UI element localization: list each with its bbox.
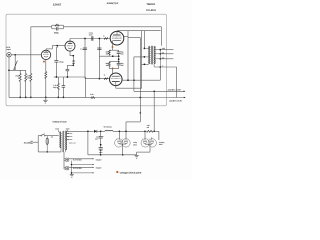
voltage check point V2 cathode [112,46,114,48]
node between filter caps [100,144,102,146]
OPT primary winding [149,46,150,64]
svg-text:1000p: 1000p [59,61,64,64]
node cathode bus [45,97,47,99]
capacitor C4 cathode bypass [62,77,64,85]
arrow another ch B+ [184,91,186,93]
wire screen to B line link [128,37,140,39]
svg-text:680p: 680p [54,32,59,35]
node primary tap 2 [144,63,146,65]
wire plate V3 [115,82,117,89]
wire plate V1b up [69,39,71,44]
capacitor C3 network 22k 2W [66,65,68,69]
wire heater winding lead [64,150,66,152]
wire HV to rectifier [65,130,93,132]
node secondary 16 ohm [159,49,161,51]
transformer T2 secondary winding [65,131,66,150]
wire AC feed [33,141,38,143]
node fuse bottom [47,151,48,152]
svg-text:voltage check point: voltage check point [120,172,142,175]
wire heater 2b [72,172,94,174]
node B+ tap junction [133,79,135,81]
diode D1 rectifier [94,130,97,133]
wire secondary ground return [159,67,161,80]
wire secondary spine [159,50,161,67]
choke CH1 5H 250mA [105,130,113,131]
svg-text:another ch B: another ch B [169,100,182,103]
wire B link long riser [139,38,141,98]
resistor R4 cathode V1a [45,72,47,79]
svg-text:100µ: 100µ [53,86,57,89]
OPT core [151,46,153,65]
resistor R3 grid leak [30,27,32,74]
schematic frame border [6,14,167,106]
fuse F1 [46,138,48,145]
voltage check point V1a cathode [43,61,45,63]
node heater common 1 [71,164,73,166]
node primary tap B+ [144,56,146,58]
tube V3 6V6GT lower [110,73,123,86]
AC plug symbol [30,140,32,142]
voltage check point V3 cathode [112,68,114,70]
wire cathode network right [72,56,74,66]
node can1 feed b [125,130,127,132]
resistor R5 plate load with capacitor C1 680p [51,25,53,29]
node lower grid junction [99,78,101,80]
wire speaker 8 [160,53,173,55]
heater winding terminals block 1 [65,158,67,160]
wire B+ rail [97,130,105,132]
arrow mark on riser [139,111,141,113]
wire plate V1b to grid upper [70,38,110,40]
node secondary 8 ohm [159,53,161,55]
resistor R12 dropper [146,130,153,132]
wire can2 ground [149,144,151,152]
svg-text:2W: 2W [72,62,75,65]
wire plate rail to OPT [64,26,162,28]
svg-text:input: input [6,48,11,51]
capacitor C2 coupling 1000p [56,46,58,48]
wire B+ down to supply [153,91,155,131]
svg-text:+: + [122,139,123,141]
wire to grid V1b [57,45,65,47]
capacitor C10 filter [100,131,102,136]
wire plate V1a [45,49,47,52]
node secondary 4 ohm [159,58,161,60]
wire cathode V1b [69,51,71,56]
node network join [72,64,74,66]
T2 core [62,131,64,152]
wire plate load left [31,26,52,28]
node pot bottom [8,69,10,71]
wire heater common down [71,161,73,175]
svg-text:another ch B+: another ch B+ [168,88,182,91]
wire aux grid return [98,39,100,79]
ground bus wire [9,96,86,98]
resistor R9 grid stopper lower [104,78,108,80]
T2 HV tap arrows [65,132,72,134]
wire plate V3 to OPT [116,87,142,89]
svg-text:TANGO: TANGO [146,3,155,6]
wire OPT box left edge lead [141,31,143,88]
resistor R8 grid stopper upper [104,38,108,40]
node secondary 0 [159,66,161,68]
wire transformer heater lead [63,152,65,169]
resistor R6 cathode 12AX7 [57,77,59,83]
wire lower drive down [84,39,86,79]
wire heater 2a [69,166,93,168]
ground symbol main [45,97,47,100]
capacitor can1 dual electrolytic [118,131,120,139]
svg-text:6.3V/3A: 6.3V/3A [73,159,82,162]
wire primary taps [58,130,60,132]
wire HV return down [87,131,89,155]
wire 0 down to B line [176,67,178,98]
capacitor C6 coupling lower [83,47,87,49]
wire primary bottom lead [60,148,62,152]
node drive split [84,38,86,40]
wire screen V2 [124,35,128,37]
node B line junction [139,97,141,99]
wire AC bottom [38,151,61,153]
node plate V1a grid V1b [56,45,58,47]
arrow another ch B [184,97,186,99]
wire rail after choke [113,130,145,132]
volume pot VR1 [14,55,16,71]
wire cathode V2 [112,40,114,50]
wire heater 1a [69,158,93,160]
ground symbol heater [70,173,74,175]
wire AC top [38,135,40,137]
svg-text:TANGO ST-220: TANGO ST-220 [52,120,67,123]
node cathode V1b [72,55,74,57]
wire cathode bus V1 [54,76,86,78]
svg-text:6V6G(T)×4: 6V6G(T)×4 [107,2,119,5]
svg-text:1/4W: 1/4W [27,77,31,80]
node dropper right [153,130,155,132]
wire to lower network [118,56,120,62]
heater winding terminals block 2 [65,166,67,168]
capacitor C11 filter [99,147,103,149]
resistor R1 input [19,70,21,73]
wire speaker 0 [160,66,176,68]
wire OPT primary lead 2 [142,63,149,65]
wire plate V2 [116,31,118,35]
node cathode join upper [112,55,114,57]
node filter cap 1 [100,130,102,132]
svg-text:12AX7: 12AX7 [53,2,62,6]
wire speaker 4 [160,58,173,60]
cathode network upper resistor R10 capacitor C8 [109,49,119,51]
node screen junction [127,79,129,81]
node can1 ground [122,154,124,156]
svg-text:FX-40-5: FX-40-5 [146,9,156,12]
capacitor C7 grid return [97,47,101,49]
svg-text:5H 250mA: 5H 250mA [104,125,113,128]
transformer T2 primary winding [60,132,61,148]
wire heater 1b [72,164,94,166]
triode V1b 12AX7 second half [65,41,75,51]
wire jack ground down [8,57,10,97]
wire lower grid [85,78,110,80]
capacitor C5 coupling upper [91,36,93,40]
node input junction [14,54,16,56]
node B+ supply junction [153,90,155,92]
wire screen riser [127,31,129,80]
wire pot bottom rail [9,69,26,71]
triode V1a 12AX7 first half [41,50,50,59]
wire plate line to OPT [117,30,161,32]
wire OPT primary lead 1 [143,31,145,49]
node dropper left [144,130,146,132]
svg-text:+: + [142,139,143,141]
wire cathode V3 [112,69,114,75]
wire B+ tap link [134,56,145,58]
svg-text:+: + [149,139,150,141]
node can1 feed a [119,130,121,132]
wire grid return bus [99,55,118,57]
svg-text:heater: heater [96,159,102,162]
tube V2 6V6GT upper [110,31,124,45]
svg-text:5.6k: 5.6k [90,93,93,96]
ground symbol supply [135,154,139,156]
resistor R2 input [25,70,27,73]
switch SW on AC line [41,135,42,136]
node heater common 2 [71,172,73,174]
wire OPT primary top lead [160,27,162,46]
wire B line to supply L-shape [139,98,141,122]
svg-text:6.3V/3A: 6.3V/3A [73,167,82,170]
cathode V1a wire [45,60,47,72]
wire B+ riser [133,57,135,91]
node HV return [87,130,89,132]
resistor R7 NFB [86,97,91,99]
svg-text:+: + [103,136,104,138]
wire input to grid V1a [11,54,41,56]
node bus dots input [19,97,21,99]
svg-text:heater: heater [96,167,102,170]
wire speaker 16 [160,49,173,51]
wire B+ distribution [134,90,185,92]
wire rail right [154,130,159,132]
OPT secondary winding [154,46,155,64]
wire screen line lower [122,79,160,81]
legend voltage check point [116,171,118,173]
cathode network lower resistor R11 capacitor C9 [109,61,119,63]
node primary tap 1 [144,48,146,50]
ground bus supply [88,154,137,156]
capacitor can2 dual electrolytic [144,131,146,140]
svg-text:+: + [116,139,117,141]
wire NFB riser [85,77,87,98]
